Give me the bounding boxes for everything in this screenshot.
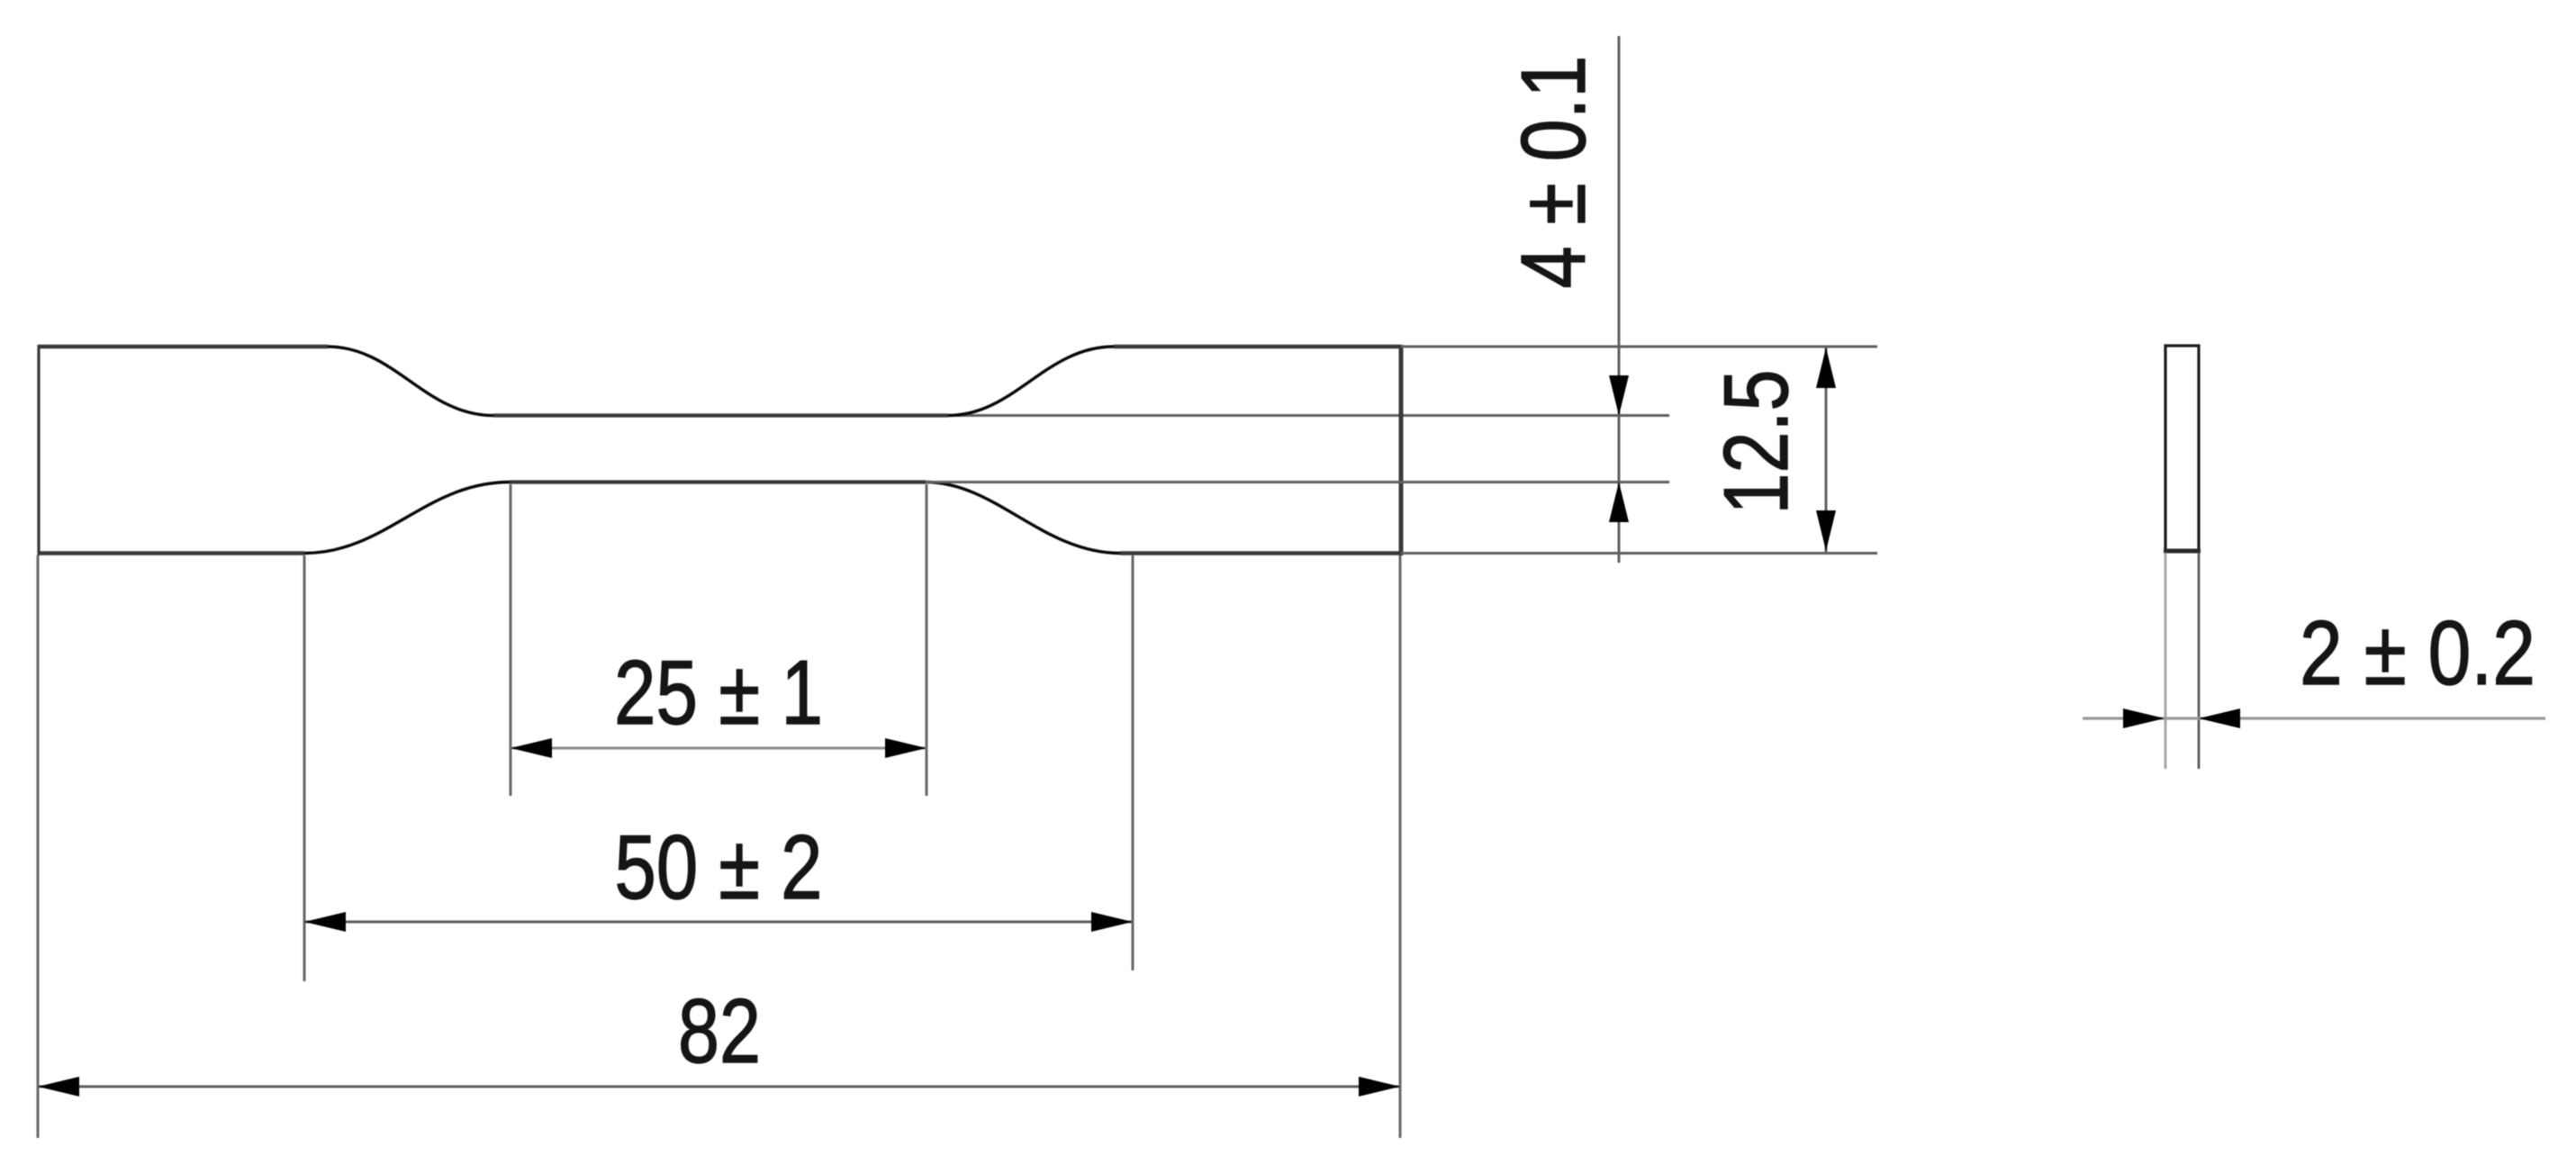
dimension 50±2 right arrow (1091, 912, 1133, 932)
dimension 25±1 right arrow (885, 738, 926, 758)
dimension 50±2 line (304, 921, 1133, 924)
extension line 50±2 left (303, 555, 306, 981)
dimension 2±0.2 left arrow (2123, 708, 2165, 728)
svg-text:2 ± 0.2: 2 ± 0.2 (2300, 603, 2535, 704)
extension line 50±2 right (1132, 555, 1134, 970)
projection line gauge bottom to right (926, 481, 1669, 483)
dimension 25±1 left arrow (511, 738, 552, 758)
projection line gauge top to right (948, 414, 1669, 417)
specimen side view rectangle (2165, 346, 2199, 551)
svg-text:82: 82 (678, 981, 761, 1082)
dimension 25±1 line (511, 747, 926, 750)
specimen front view: top-left shoulder curve (328, 347, 493, 416)
svg-text:50 ± 2: 50 ± 2 (615, 817, 823, 918)
extension line thickness left (2165, 553, 2167, 769)
extension line 82 right (1399, 555, 1402, 1138)
specimen front view: left edge (37, 345, 40, 555)
extension line thickness right (2198, 553, 2201, 769)
dimension 82 line (38, 1086, 1400, 1088)
specimen front view: right grip bottom edge (1120, 551, 1401, 555)
specimen front view: gauge bottom edge (510, 480, 926, 483)
svg-text:12.5: 12.5 (1706, 370, 1807, 515)
specimen side view bottom edge (2164, 549, 2201, 554)
projection line grip bottom to right (1401, 552, 1877, 555)
dimension 12.5 top arrow (1816, 347, 1836, 388)
extension line 25±1 left (510, 484, 512, 796)
extension line 82 left (37, 555, 40, 1138)
specimen front view: top-right shoulder curve (948, 347, 1114, 416)
dimension 2±0.2 line (2083, 717, 2545, 719)
svg-text:4 ± 0.1: 4 ± 0.1 (1504, 56, 1604, 289)
extension line 25±1 right (926, 484, 928, 796)
specimen front view: left grip bottom edge (39, 551, 304, 555)
dimension 12.5 line (1825, 347, 1828, 552)
specimen front view: right grip top edge (1114, 345, 1401, 349)
dimension 4±0.1 upper arrow (1609, 375, 1629, 416)
dimension 4±0.1 line (1618, 36, 1621, 563)
projection line grip top to right (1401, 346, 1877, 348)
specimen front view: right edge (1399, 345, 1404, 555)
specimen front view: bottom-right shoulder curve (926, 483, 1120, 554)
dimension 82 left arrow (38, 1077, 79, 1096)
dimension 12.5 bottom arrow (1816, 510, 1836, 551)
specimen front view: left grip top edge (39, 345, 328, 349)
dimension 2±0.2 right arrow (2199, 708, 2240, 728)
dimension 50±2 left arrow (304, 912, 346, 932)
dimension 82 right arrow (1359, 1077, 1400, 1096)
specimen front view: bottom-left shoulder curve (304, 483, 510, 554)
specimen front view: gauge top edge (493, 413, 948, 417)
svg-text:25 ± 1: 25 ± 1 (614, 643, 823, 744)
dimension 4±0.1 lower arrow (1609, 483, 1629, 523)
